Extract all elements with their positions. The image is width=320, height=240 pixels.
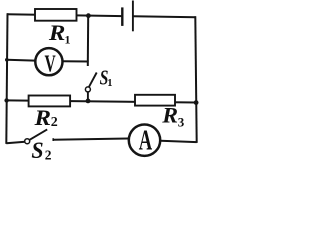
svg-text:V: V bbox=[45, 51, 57, 77]
switch S1 bbox=[85, 73, 96, 102]
voltmeter V bbox=[35, 48, 62, 77]
label R3 bbox=[161, 103, 185, 130]
resistor R2 bbox=[29, 96, 71, 107]
svg-text:2: 2 bbox=[45, 147, 52, 161]
svg-text:R: R bbox=[33, 105, 51, 130]
svg-text:S: S bbox=[31, 138, 43, 161]
resistor R3 bbox=[135, 95, 175, 106]
wire voltmeter right lead bbox=[63, 60, 89, 62]
label S1 bbox=[100, 66, 113, 90]
battery gap bbox=[124, 10, 132, 22]
junction node (S1 / middle rail) bbox=[86, 99, 91, 104]
ammeter A bbox=[129, 125, 160, 157]
wire middle rail bbox=[7, 100, 197, 102]
wire bottom rail right (ammeter to corner) bbox=[161, 141, 197, 142]
wire bottom rail left (corner to S2) bbox=[6, 142, 25, 144]
svg-text:3: 3 bbox=[178, 115, 185, 130]
junction node (left edge / voltmeter lead) bbox=[5, 58, 9, 62]
battery negative plate (short) bbox=[121, 7, 123, 26]
svg-text:R: R bbox=[161, 103, 178, 128]
switch S2 bbox=[25, 129, 54, 143]
wire right edge bbox=[195, 16, 196, 143]
resistor R1 bbox=[35, 9, 77, 21]
wire voltmeter left lead bbox=[7, 59, 35, 62]
svg-text:R: R bbox=[48, 20, 66, 45]
label R1 bbox=[48, 20, 71, 47]
svg-text:1: 1 bbox=[107, 78, 112, 89]
junction node (left edge / middle rail) bbox=[4, 98, 8, 102]
wire left edge bbox=[6, 13, 7, 144]
svg-text:1: 1 bbox=[65, 32, 71, 46]
wire top rail right (battery to corner) bbox=[133, 15, 196, 18]
svg-text:A: A bbox=[139, 126, 153, 157]
wire stub from node A down to S1 fixed contact bbox=[87, 16, 89, 67]
wire bottom rail mid (S2 to ammeter) bbox=[53, 139, 129, 140]
svg-text:2: 2 bbox=[51, 115, 58, 130]
wire top rail left (to battery) bbox=[7, 14, 123, 16]
junction node A (top, R1/stub) bbox=[86, 13, 91, 18]
label R2 bbox=[33, 105, 57, 130]
label S2 bbox=[31, 138, 51, 163]
junction node (middle rail / right edge) bbox=[194, 100, 199, 105]
battery positive plate (long) bbox=[132, 1, 134, 32]
